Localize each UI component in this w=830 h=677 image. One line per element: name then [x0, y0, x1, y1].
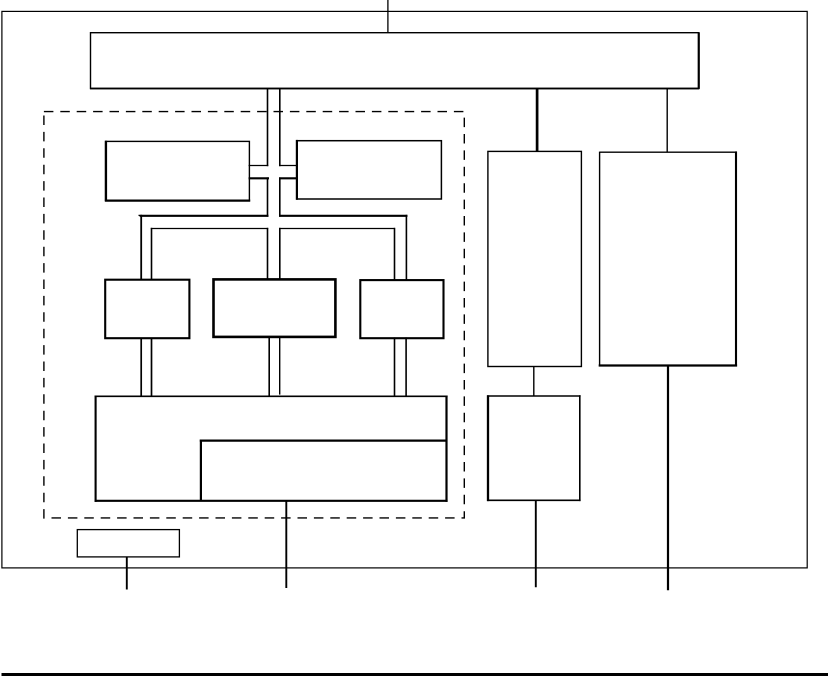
- wire middle-left block to base block (right): [151, 338, 153, 396]
- right tall block bottom edge (thick): [599, 364, 737, 366]
- base block top edge: [95, 395, 448, 397]
- dashed sub-system boundary: [44, 112, 464, 518]
- lower-right block bottom edge: [487, 499, 581, 501]
- wire lower-right block output lead: [535, 500, 537, 587]
- wire bus B left segment: [151, 228, 268, 230]
- wire right tall block output lead (thick): [667, 366, 669, 591]
- wire middle-right block to base block (left): [394, 337, 396, 396]
- wire bus B right segment: [279, 228, 395, 230]
- base block bottom edge: [95, 500, 448, 502]
- wire stub upper-right: [279, 165, 298, 167]
- right tall block top edge: [600, 151, 737, 153]
- wire top block to right tall block: [666, 89, 668, 152]
- wire stub upper-left: [249, 165, 269, 167]
- top bus block bottom edge: [90, 88, 699, 90]
- wire bus B right drop to middle-right block: [394, 228, 396, 281]
- base block right edge: [445, 396, 447, 502]
- wire bus B right-segment drop to center block: [279, 228, 281, 279]
- wire bus A right segment (thick): [279, 215, 408, 217]
- wire V3 stub down to bus A: [267, 177, 269, 216]
- wire stub lower-left (thick): [249, 177, 270, 179]
- wire center block to base block (right): [279, 337, 281, 394]
- wire bus A left segment (thick): [140, 215, 269, 217]
- wire middle-right block to base block (right): [405, 337, 407, 396]
- wire middle-left block to base block (left): [140, 338, 142, 396]
- lower-right block right edge: [579, 395, 581, 501]
- top bus block right edge (thick): [698, 32, 700, 89]
- wire stub lower-right (thick): [279, 177, 298, 179]
- wire center block to base block (left): [268, 337, 270, 397]
- base block inner sub-block left edge: [200, 440, 202, 501]
- wire small block output lead: [126, 557, 128, 590]
- block upper-right in dashed region: [297, 141, 442, 199]
- block upper-left in dashed region: [106, 141, 250, 200]
- wire bus A left drop to middle-left block: [140, 215, 142, 281]
- block upper-left bottom edge (thick): [105, 200, 250, 202]
- wire top lead into top block: [387, 0, 389, 33]
- wire bus B left drop to middle-left block: [151, 228, 153, 281]
- lower-right block top edge: [487, 395, 581, 397]
- wire V2 from top block down: [279, 89, 281, 166]
- right tall block right edge (thick): [735, 151, 737, 366]
- middle-right block: [360, 280, 443, 338]
- left tall block: [488, 151, 582, 366]
- bottom-left small block: [77, 530, 179, 557]
- middle-center block (thick border): [214, 279, 336, 337]
- bottom page rule: [2, 673, 829, 676]
- wire top block to left tall block (thick): [536, 89, 539, 152]
- wire bus A right drop to middle-right block: [405, 215, 407, 281]
- wire left tall block to lower block: [533, 367, 535, 397]
- lower-right block left edge (thick): [487, 395, 489, 501]
- block upper-right left edge (thick): [296, 140, 298, 200]
- base block left edge: [95, 396, 97, 502]
- outer enclosure box: [2, 11, 807, 568]
- block upper-left left edge (thick): [105, 141, 107, 202]
- wire V4 stub down to bus A: [279, 177, 281, 216]
- base block inner sub-block top edge: [200, 440, 447, 442]
- wire V1 from top block down: [267, 89, 269, 166]
- right tall block left edge: [599, 152, 601, 367]
- wire bus B left-segment drop to center block: [267, 228, 269, 280]
- middle-left block: [105, 280, 189, 339]
- top bus block: [91, 33, 699, 89]
- wire base block output lead: [285, 501, 287, 588]
